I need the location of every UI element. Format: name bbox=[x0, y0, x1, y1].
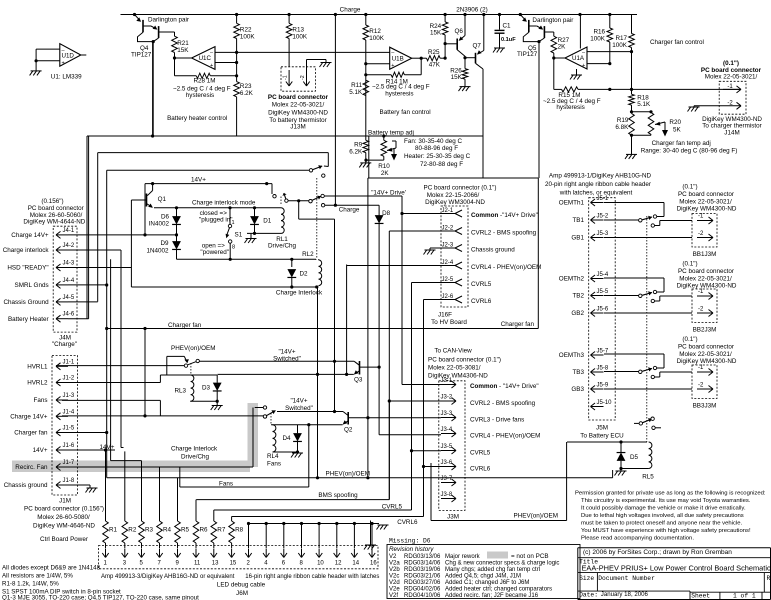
svg-text:Q2: Q2 bbox=[344, 427, 353, 434]
svg-text:J16F: J16F bbox=[438, 312, 452, 319]
pin J1-3 Fans bbox=[56, 399, 68, 401]
svg-text:must be taken to protect onese: must be taken to protect oneself and any… bbox=[581, 520, 742, 526]
svg-text:Fans: Fans bbox=[34, 397, 48, 404]
svg-text:CVRL6: CVRL6 bbox=[471, 298, 492, 305]
pin J3-3 bbox=[441, 417, 456, 419]
svg-text:OEMTh2: OEMTh2 bbox=[559, 276, 585, 283]
diode D2 bbox=[291, 259, 293, 267]
svg-text:Added C1; changed J6F to J6M: Added C1; changed J6F to J6M bbox=[445, 580, 529, 586]
svg-text:OEMTh1: OEMTh1 bbox=[559, 200, 585, 207]
svg-text:Recirc. Fan: Recirc. Fan bbox=[15, 464, 48, 471]
svg-text:HVRL2: HVRL2 bbox=[27, 380, 48, 387]
switch RL4 bbox=[263, 406, 266, 409]
pin J1-2 HVRL2 bbox=[56, 382, 68, 384]
svg-text:16: 16 bbox=[370, 561, 377, 567]
svg-text:Q7: Q7 bbox=[473, 42, 482, 49]
svg-text:= not on PCB: = not on PCB bbox=[511, 553, 549, 560]
svg-text:+: + bbox=[210, 63, 213, 69]
svg-text:DigiKey WM4300-ND: DigiKey WM4300-ND bbox=[677, 206, 737, 213]
svg-text:TB3: TB3 bbox=[572, 369, 584, 376]
svg-text:Q1: Q1 bbox=[158, 196, 167, 203]
svg-text:V2b: V2b bbox=[389, 567, 400, 573]
svg-text:J6M: J6M bbox=[236, 590, 248, 597]
svg-text:LED debug cable: LED debug cable bbox=[217, 582, 266, 589]
svg-text:J4-4: J4-4 bbox=[63, 278, 75, 284]
resistor R22 bbox=[236, 15, 238, 24]
svg-text:DigiKey WM-4644-ND: DigiKey WM-4644-ND bbox=[23, 219, 85, 226]
svg-text:CVRL3 - Drive fans: CVRL3 - Drive fans bbox=[470, 417, 524, 424]
wire J1-3 row fans bbox=[62, 399, 160, 401]
svg-text:15K: 15K bbox=[451, 74, 463, 81]
svg-text:(c) 2006 by ForSites Corp.; dr: (c) 2006 by ForSites Corp.; drawn by Ron… bbox=[583, 549, 732, 556]
pin J2-6 bbox=[455, 296, 462, 300]
svg-text:J3-2: J3-2 bbox=[441, 395, 453, 401]
svg-text:DigiKey WM4300-ND: DigiKey WM4300-ND bbox=[677, 358, 737, 365]
svg-text:J14M: J14M bbox=[724, 129, 739, 136]
svg-text:PC board connector: PC board connector bbox=[678, 268, 734, 275]
wire J3-3 bbox=[389, 417, 441, 419]
svg-text:Missing: D6: Missing: D6 bbox=[389, 538, 431, 545]
pin J3-7 bbox=[441, 482, 456, 484]
wire U1C inputs bbox=[215, 51, 390, 53]
connector BB3J3M bbox=[692, 365, 717, 399]
svg-text:"14V+ Drive': "14V+ Drive' bbox=[371, 189, 406, 196]
resistor R14 feedback bbox=[420, 58, 422, 75]
wire interlock box bottom bbox=[177, 258, 317, 260]
svg-text:Switched": Switched" bbox=[285, 405, 313, 412]
svg-text:BB1J3M: BB1J3M bbox=[693, 251, 717, 258]
wire BMS column bbox=[388, 231, 390, 500]
svg-text:J5-4: J5-4 bbox=[597, 272, 609, 278]
pin J5-6 bbox=[591, 312, 604, 314]
svg-text:R8: R8 bbox=[235, 527, 244, 534]
svg-text:J4-6: J4-6 bbox=[63, 312, 75, 318]
svg-text:100K: 100K bbox=[369, 35, 385, 42]
connector J13M bbox=[281, 67, 315, 91]
svg-text:"powered": "powered" bbox=[200, 249, 229, 256]
svg-text:CVRL5: CVRL5 bbox=[470, 450, 491, 457]
svg-text:V2: V2 bbox=[389, 554, 397, 560]
svg-text:-1: -1 bbox=[698, 214, 704, 220]
resistor R12 bbox=[365, 15, 367, 26]
diode D5 bbox=[620, 442, 622, 452]
ground D5 bbox=[616, 470, 627, 472]
pin J1-4 Charge 14V+ bbox=[56, 415, 68, 417]
pin J3-1 bbox=[441, 384, 456, 386]
svg-text:hysteresis: hysteresis bbox=[556, 104, 584, 111]
svg-text:80-88-96 deg F: 80-88-96 deg F bbox=[415, 145, 458, 152]
svg-text:R2: R2 bbox=[128, 527, 137, 534]
svg-text:RDG: RDG bbox=[404, 554, 418, 560]
svg-text:Darlington pair: Darlington pair bbox=[148, 17, 189, 24]
diode D9 bbox=[172, 241, 181, 249]
wire Q3 emitter row bbox=[218, 373, 354, 375]
ground R26 bbox=[460, 86, 471, 88]
svg-text:C1: C1 bbox=[503, 23, 512, 30]
resistor R24 bbox=[444, 15, 446, 22]
svg-text:J5-8: J5-8 bbox=[597, 366, 609, 372]
svg-text:J1-5: J1-5 bbox=[63, 426, 75, 432]
svg-text:-1: -1 bbox=[698, 365, 704, 371]
svg-text:R12: R12 bbox=[369, 28, 381, 35]
svg-text:J3-4: J3-4 bbox=[441, 427, 453, 433]
resistor R19 bbox=[629, 113, 635, 135]
svg-text:To CAN-View: To CAN-View bbox=[434, 348, 472, 355]
svg-text:J1-8: J1-8 bbox=[63, 478, 75, 484]
switch RL2 top contact bbox=[309, 169, 312, 172]
svg-text:-"14V+ Drive": -"14V+ Drive" bbox=[500, 212, 538, 219]
pin J3-5 bbox=[441, 450, 456, 452]
linkage RL2 bbox=[316, 178, 318, 259]
resistor R4 bbox=[159, 467, 161, 521]
svg-text:R23: R23 bbox=[240, 83, 252, 90]
switch RL1 contact bbox=[271, 184, 273, 194]
connector BB1J3M bbox=[692, 214, 717, 248]
pin J1-5 Charger fan bbox=[56, 432, 68, 434]
resistor R6 bbox=[195, 500, 197, 521]
svg-text:R7: R7 bbox=[217, 527, 226, 534]
svg-text:D9: D9 bbox=[160, 240, 169, 247]
svg-text:R21: R21 bbox=[177, 40, 189, 47]
svg-text:D2: D2 bbox=[300, 271, 309, 278]
svg-text:Charge 14V+: Charge 14V+ bbox=[10, 414, 48, 421]
svg-text:+: + bbox=[582, 63, 585, 69]
svg-text:8: 8 bbox=[232, 245, 235, 251]
svg-text:J1-7: J1-7 bbox=[63, 460, 75, 466]
svg-text:Common: Common bbox=[471, 212, 498, 219]
svg-text:J3-6: J3-6 bbox=[441, 460, 453, 466]
svg-text:"14V+: "14V+ bbox=[290, 398, 307, 405]
svg-text:10: 10 bbox=[317, 561, 324, 567]
svg-text:Major rework: Major rework bbox=[445, 554, 481, 560]
svg-text:R28 1M: R28 1M bbox=[194, 78, 216, 85]
svg-text:1 of 1: 1 of 1 bbox=[733, 593, 756, 600]
svg-text:Molex 22-05-3021/: Molex 22-05-3021/ bbox=[272, 102, 325, 109]
svg-text:72-80-88 deg F: 72-80-88 deg F bbox=[420, 161, 463, 168]
svg-text:Battery fan control: Battery fan control bbox=[380, 109, 431, 116]
svg-text:SMRL Gnds: SMRL Gnds bbox=[15, 282, 49, 289]
svg-text:16-pin right angle ribbon cabl: 16-pin right angle ribbon cable header w… bbox=[245, 574, 379, 580]
svg-text:U1D: U1D bbox=[62, 53, 75, 60]
resistor R9 bbox=[365, 139, 367, 141]
ground J13M bbox=[321, 62, 332, 64]
svg-text:Charger fan: Charger fan bbox=[14, 430, 48, 437]
svg-text:U1: LM339: U1: LM339 bbox=[51, 74, 82, 81]
svg-text:14V+: 14V+ bbox=[33, 447, 48, 454]
svg-text:It could possibly damage the v: It could possibly damage the vehicle or … bbox=[581, 505, 746, 511]
svg-text:1N4002: 1N4002 bbox=[146, 247, 169, 254]
relay coil RL1 bbox=[281, 208, 284, 234]
svg-text:PC board connector: PC board connector bbox=[268, 94, 329, 101]
pin J5-10 bbox=[591, 406, 604, 408]
svg-text:Charger fan control: Charger fan control bbox=[650, 39, 704, 46]
svg-text:Molex 22-05-3021/: Molex 22-05-3021/ bbox=[679, 275, 732, 282]
svg-text:PHEV(on)/OEM: PHEV(on)/OEM bbox=[171, 345, 215, 352]
wire down-mid risers bbox=[298, 201, 300, 219]
linkage RL3 bbox=[190, 363, 192, 375]
wire J2-4 bbox=[347, 265, 455, 267]
resistor R26 bbox=[464, 58, 466, 69]
svg-text:"14V+: "14V+ bbox=[278, 349, 295, 356]
svg-text:Charge interlock mode: Charge interlock mode bbox=[192, 200, 256, 207]
transistor Q3 bbox=[359, 361, 361, 375]
op-amp U1B bbox=[390, 47, 412, 69]
svg-text:hysteresis: hysteresis bbox=[385, 91, 413, 98]
wire OEMTh row BB2J3M bbox=[604, 277, 664, 279]
resistor R5 bbox=[177, 478, 179, 521]
wire J4-5 row bbox=[68, 301, 98, 303]
svg-text:All resistors are 1/4W, 5%: All resistors are 1/4W, 5% bbox=[2, 573, 73, 580]
svg-text:J5-6: J5-6 bbox=[597, 307, 609, 313]
resistor R25 bbox=[427, 56, 441, 61]
svg-text:DigiKey WM-4646-ND: DigiKey WM-4646-ND bbox=[33, 522, 95, 529]
svg-text:R3: R3 bbox=[145, 527, 154, 534]
wire J1-5 row bbox=[62, 432, 107, 434]
svg-text:BB2J3M: BB2J3M bbox=[693, 327, 717, 334]
svg-text:Due to lethal high voltages in: Due to lethal high voltages involved, al… bbox=[581, 513, 744, 519]
svg-text:Q1-3 MJE 3055, TO-220 case;: Q1-3 MJE 3055, TO-220 case; Q4,5 TIP127,… bbox=[2, 595, 199, 600]
svg-text:D5: D5 bbox=[630, 454, 639, 461]
pin 8 bbox=[300, 522, 303, 525]
svg-text:R16: R16 bbox=[593, 29, 605, 36]
wire J2-5 bbox=[412, 282, 456, 284]
pin J5-5 bbox=[591, 295, 604, 297]
ground U1D bbox=[31, 70, 42, 72]
wire J4-6 row bbox=[68, 318, 89, 320]
svg-text:04/10/06: 04/10/06 bbox=[417, 593, 441, 599]
svg-text:6.2K: 6.2K bbox=[349, 149, 363, 156]
svg-text:Sheet: Sheet bbox=[691, 593, 710, 600]
transistor Q5 darlington pair bbox=[520, 15, 525, 21]
switch RL5 bottom bbox=[634, 422, 639, 424]
ground D3 bbox=[212, 405, 223, 407]
svg-text:Document Number: Document Number bbox=[598, 575, 655, 582]
svg-text:PHEV(on)/OEM: PHEV(on)/OEM bbox=[326, 471, 370, 478]
svg-text:Permission granted for private: Permission granted for private use as lo… bbox=[575, 490, 766, 496]
wire 14V+ drive column bbox=[401, 214, 403, 385]
svg-text:J5-5: J5-5 bbox=[597, 289, 609, 295]
wire interlock box top bbox=[154, 207, 281, 209]
svg-text:0.1uF: 0.1uF bbox=[501, 37, 516, 43]
svg-text:Fans: Fans bbox=[219, 480, 233, 487]
resistor R8 bbox=[231, 517, 233, 522]
svg-text:Charge interlock: Charge interlock bbox=[3, 247, 50, 254]
svg-text:Range: 30-40 deg C (80-96 deg: Range: 30-40 deg C (80-96 deg F) bbox=[641, 147, 738, 154]
switch TB BB1J3M bbox=[604, 219, 639, 221]
svg-text:Added heater ctrl; changed com: Added heater ctrl; changed comparators bbox=[445, 587, 552, 593]
wire GB row to -2 bbox=[604, 237, 692, 239]
svg-text:Charge Interlock: Charge Interlock bbox=[276, 289, 323, 296]
svg-text:January 18, 2006: January 18, 2006 bbox=[601, 591, 649, 598]
resistor R7 bbox=[213, 510, 215, 521]
wire smrl/charger fan riser bbox=[107, 169, 312, 171]
svg-text:HVRL1: HVRL1 bbox=[27, 364, 48, 371]
svg-text:PC board connector: PC board connector bbox=[678, 344, 734, 351]
svg-text:15: 15 bbox=[230, 561, 237, 567]
svg-text:R19: R19 bbox=[617, 117, 629, 124]
svg-text:Ctrl Board Power: Ctrl Board Power bbox=[40, 536, 88, 543]
svg-text:Added Q4,5; chgd J4M, J1M: Added Q4,5; chgd J4M, J1M bbox=[445, 573, 521, 579]
wire RL5 feed / J3 box bbox=[566, 442, 568, 521]
transistor Q1 bbox=[152, 184, 154, 191]
svg-text:Charge 14V+: Charge 14V+ bbox=[11, 232, 49, 239]
wire J3-2 bbox=[389, 400, 441, 402]
svg-text:2K: 2K bbox=[381, 170, 390, 177]
svg-text:D3: D3 bbox=[202, 385, 211, 392]
svg-text:J4-5: J4-5 bbox=[63, 295, 75, 301]
svg-text:CVRL4 - PHEV(on)/OEM: CVRL4 - PHEV(on)/OEM bbox=[471, 264, 541, 271]
svg-text:100K: 100K bbox=[240, 34, 256, 41]
pin J5-3 bbox=[591, 237, 604, 239]
wire J3-5 bbox=[412, 450, 442, 452]
svg-text:15K: 15K bbox=[430, 30, 442, 37]
svg-text:J3-3: J3-3 bbox=[441, 411, 453, 417]
pin J5-9 bbox=[591, 388, 604, 390]
svg-text:V2f: V2f bbox=[389, 593, 398, 599]
svg-text:TB2: TB2 bbox=[572, 293, 584, 300]
svg-text:R17: R17 bbox=[615, 35, 627, 42]
svg-text:GB3: GB3 bbox=[571, 386, 584, 393]
svg-text:03/21/06: 03/21/06 bbox=[417, 573, 441, 579]
transistor Q4 darlington pair bbox=[135, 15, 140, 21]
svg-text:J1-4: J1-4 bbox=[63, 409, 75, 415]
svg-text:PC board connector: PC board connector bbox=[678, 191, 734, 198]
wire J3-1 bbox=[402, 384, 441, 386]
svg-text:Charger fan: Charger fan bbox=[168, 322, 202, 329]
svg-text:PHEV(on)/OEM: PHEV(on)/OEM bbox=[514, 513, 558, 520]
wire PHEV column bbox=[367, 178, 369, 478]
svg-text:- "14V+ Drive": - "14V+ Drive" bbox=[499, 383, 539, 390]
box J16F to HV board bbox=[537, 178, 539, 329]
wire J4-3 row bbox=[68, 267, 131, 269]
potentiometer R20 bbox=[632, 111, 652, 113]
wire top supply bus bbox=[121, 14, 638, 16]
resistor R16 bbox=[609, 15, 611, 29]
wire CVRL5 column bbox=[411, 283, 413, 511]
svg-text:GB1: GB1 bbox=[571, 235, 584, 242]
svg-text:DigiKey WM4306-ND: DigiKey WM4306-ND bbox=[428, 373, 488, 380]
svg-text:03/27/06: 03/27/06 bbox=[417, 580, 441, 586]
svg-text:6.8K: 6.8K bbox=[615, 124, 629, 131]
pin J5-1 bbox=[591, 202, 604, 204]
ground D4 bbox=[292, 452, 303, 454]
svg-text:To Battery ECU: To Battery ECU bbox=[580, 433, 624, 440]
svg-text:Charger fan temp adj: Charger fan temp adj bbox=[652, 140, 711, 147]
resistor R23 bbox=[234, 82, 240, 97]
wire OEMTh row BB3J3M bbox=[604, 353, 664, 355]
svg-text:Chg & new connector specs & ch: Chg & new connector specs & charge logic bbox=[445, 560, 559, 566]
svg-text:J1-2: J1-2 bbox=[63, 376, 75, 382]
switch TB BB2J3M bbox=[604, 295, 639, 297]
resistor R13 bbox=[288, 15, 290, 24]
ground LED bus bbox=[372, 523, 379, 525]
svg-text:RDG: RDG bbox=[404, 587, 418, 593]
svg-text:Amp 499913-3/DigiKey AHB16G-ND: Amp 499913-3/DigiKey AHB16G-ND or equiva… bbox=[101, 574, 235, 580]
wire GB row to -2 bbox=[604, 312, 692, 314]
linkage RL4 bbox=[270, 413, 272, 425]
svg-text:15K: 15K bbox=[177, 47, 189, 54]
svg-text:Charge Interlock: Charge Interlock bbox=[171, 446, 218, 453]
wire chassis riser bbox=[98, 152, 329, 154]
svg-text:(0.1"): (0.1") bbox=[682, 261, 697, 268]
svg-text:hysteresis: hysteresis bbox=[186, 92, 214, 99]
svg-text:RDG: RDG bbox=[404, 567, 418, 573]
wire J2-2 bbox=[389, 230, 455, 232]
svg-text:1: 1 bbox=[232, 220, 235, 226]
svg-text:14V+: 14V+ bbox=[191, 177, 206, 184]
svg-text:2K: 2K bbox=[558, 44, 567, 51]
svg-text:J3-1: J3-1 bbox=[441, 378, 453, 384]
svg-text:R20: R20 bbox=[669, 119, 681, 126]
svg-text:R6: R6 bbox=[200, 527, 209, 534]
svg-text:J3-5: J3-5 bbox=[441, 444, 453, 450]
pin J4-2 Charge interlock bbox=[56, 249, 68, 251]
svg-text:Size: Size bbox=[579, 575, 594, 582]
svg-text:Chassis ground: Chassis ground bbox=[4, 482, 48, 489]
svg-text:J1-3: J1-3 bbox=[63, 393, 75, 399]
resistor R18 bbox=[629, 94, 635, 105]
svg-text:Charge: Charge bbox=[340, 7, 361, 14]
svg-text:Molex 22-05-3021/: Molex 22-05-3021/ bbox=[705, 73, 758, 80]
svg-text:03/13/06: 03/13/06 bbox=[417, 554, 441, 560]
svg-text:J3-7: J3-7 bbox=[441, 476, 453, 482]
svg-text:V2d: V2d bbox=[389, 580, 400, 586]
linkage relay RL5 dashed bbox=[646, 216, 648, 442]
svg-text:RDG: RDG bbox=[404, 573, 418, 579]
svg-text:Molex 22-05-3021/: Molex 22-05-3021/ bbox=[679, 351, 732, 358]
svg-text:-1: -1 bbox=[283, 75, 289, 80]
pin J2-2 bbox=[455, 228, 462, 232]
svg-text:All diodes except D6&9 are 1N4: All diodes except D6&9 are 1N4148 bbox=[2, 565, 101, 572]
resistor R28 feedback bbox=[175, 75, 197, 77]
svg-text:J4-2: J4-2 bbox=[63, 243, 75, 249]
svg-text:5.1K: 5.1K bbox=[349, 89, 363, 96]
svg-text:"plugged in": "plugged in" bbox=[199, 217, 233, 224]
svg-text:Chassis Ground: Chassis Ground bbox=[3, 299, 49, 306]
svg-text:Q3: Q3 bbox=[354, 377, 363, 384]
wire OEMTh row BB1J3M bbox=[604, 202, 664, 204]
resistor R11 bbox=[363, 80, 369, 95]
svg-text:TB1: TB1 bbox=[572, 217, 584, 224]
svg-text:5.1K: 5.1K bbox=[637, 101, 651, 108]
svg-text:Molex 26-60-5080/: Molex 26-60-5080/ bbox=[37, 514, 90, 521]
svg-text:J5-1: J5-1 bbox=[597, 196, 609, 202]
recirc fan highlight bbox=[12, 461, 250, 473]
svg-text:TIP127: TIP127 bbox=[517, 51, 538, 58]
connector J1M bbox=[52, 356, 78, 496]
svg-text:R: R bbox=[767, 575, 771, 582]
pin J4-4 SMRL Gnds bbox=[56, 284, 68, 286]
op-amp U1A bbox=[565, 47, 587, 69]
svg-text:You MUST have experience with: You MUST have experience with high volta… bbox=[581, 528, 751, 534]
svg-text:RL4: RL4 bbox=[267, 453, 279, 460]
ground C1 bbox=[494, 47, 505, 49]
svg-text:Battery heater control: Battery heater control bbox=[167, 115, 227, 122]
wire J4-2 row bbox=[68, 249, 121, 251]
svg-text:D6: D6 bbox=[161, 213, 170, 220]
svg-text:R1-8 1.2k, 1/4W, 5%: R1-8 1.2k, 1/4W, 5% bbox=[2, 581, 59, 588]
wire J4-1 row bbox=[68, 234, 177, 236]
pin J2-4 bbox=[455, 262, 462, 266]
svg-text:11: 11 bbox=[194, 561, 201, 567]
svg-text:HSD "READY": HSD "READY" bbox=[7, 265, 48, 272]
svg-text:R5: R5 bbox=[181, 527, 190, 534]
switch charge contact bbox=[288, 200, 309, 202]
svg-text:(0.1"): (0.1") bbox=[682, 336, 697, 343]
svg-text:RL5: RL5 bbox=[642, 474, 654, 481]
svg-text:04/02/06: 04/02/06 bbox=[417, 587, 441, 593]
wire recirc to switch bbox=[63, 466, 253, 468]
